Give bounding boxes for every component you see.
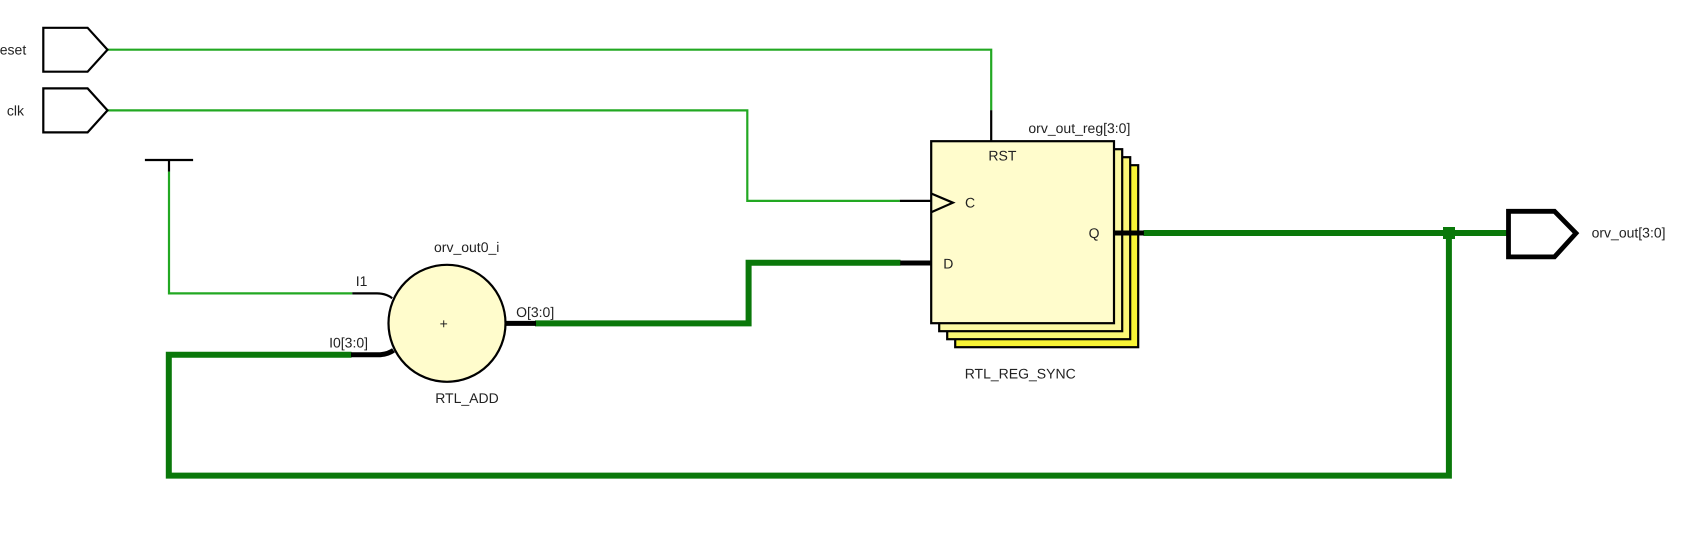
svg-text:Q: Q bbox=[1089, 225, 1100, 241]
svg-text:reset: reset bbox=[0, 42, 26, 58]
svg-text:orv_out_reg[3:0]: orv_out_reg[3:0] bbox=[1028, 120, 1130, 136]
svg-text:clk: clk bbox=[7, 102, 25, 118]
svg-text:I0[3:0]: I0[3:0] bbox=[329, 335, 368, 351]
svg-text:RTL_REG_SYNC: RTL_REG_SYNC bbox=[965, 365, 1076, 381]
svg-text:I1: I1 bbox=[356, 273, 368, 289]
svg-text:C: C bbox=[965, 195, 975, 211]
svg-text:+: + bbox=[440, 316, 448, 332]
svg-text:orv_out0_i: orv_out0_i bbox=[434, 239, 499, 255]
svg-text:orv_out[3:0]: orv_out[3:0] bbox=[1592, 224, 1666, 240]
svg-text:RST: RST bbox=[988, 148, 1016, 164]
svg-text:O[3:0]: O[3:0] bbox=[516, 304, 554, 320]
svg-text:RTL_ADD: RTL_ADD bbox=[435, 390, 499, 406]
svg-text:D: D bbox=[943, 255, 953, 271]
